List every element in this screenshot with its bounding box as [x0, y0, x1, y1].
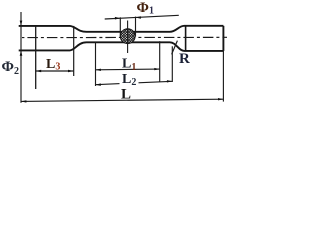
svg-text:L: L: [121, 87, 131, 103]
svg-text:R: R: [179, 51, 190, 67]
